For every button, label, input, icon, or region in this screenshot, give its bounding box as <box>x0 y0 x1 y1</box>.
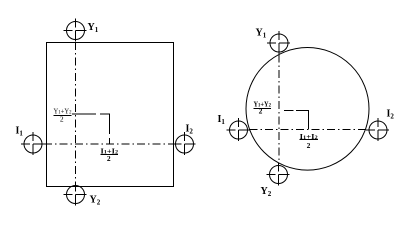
vertical centerline of N2 <box>278 55 280 163</box>
dashed bisection step of N1 <box>72 114 110 144</box>
source Y1 (top terminal of N2) <box>267 31 290 54</box>
svg-text:2: 2 <box>259 107 263 116</box>
source Y2 (bottom terminal of N2) <box>267 163 290 186</box>
value label (I1+I2)/2 of N1 <box>101 147 119 164</box>
source I1 (left terminal of N2) <box>227 118 250 141</box>
svg-text:2: 2 <box>307 141 311 150</box>
source Y1 (top terminal of N1) <box>64 19 87 42</box>
value label (Y1+Y2)/2 of N2 <box>253 100 271 116</box>
dashed bisection step of N2 <box>284 111 309 130</box>
square network N1 outline <box>47 43 174 187</box>
horizontal centerline of N2 <box>250 129 367 131</box>
source I2 (right terminal of N2) <box>366 118 389 141</box>
source I1 (left terminal of N1) <box>21 132 44 155</box>
value label (Y1+Y2)/2 of N1 <box>54 107 72 124</box>
source Y2 (bottom terminal of N1) <box>64 183 87 206</box>
value label (I1+I2)/2 of N2 <box>300 132 319 150</box>
svg-text:2: 2 <box>107 154 111 163</box>
source I2 (right terminal of N1) <box>173 132 196 155</box>
circular network N2 outline <box>246 48 369 171</box>
horizontal centerline of N1 <box>44 143 173 145</box>
vertical centerline of N1 <box>75 42 77 183</box>
svg-text:2: 2 <box>60 115 64 124</box>
